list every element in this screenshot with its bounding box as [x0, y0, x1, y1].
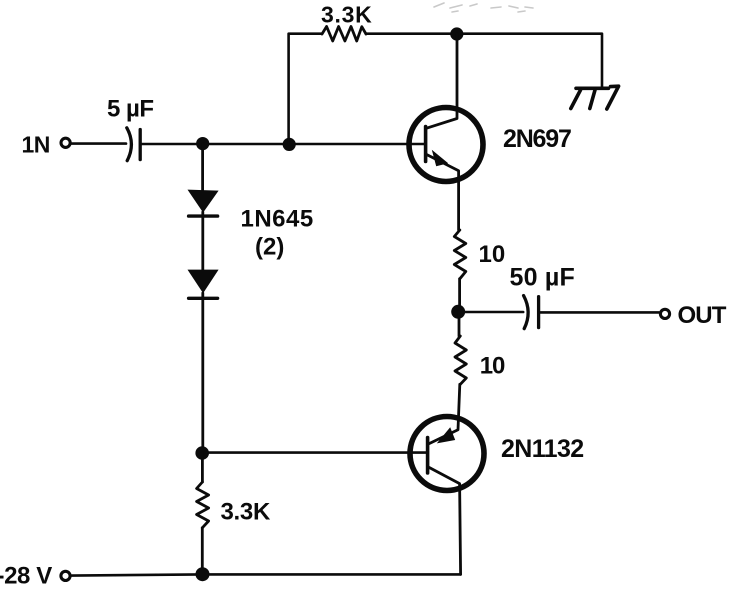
capacitor C2 straight plate [537, 297, 540, 328]
wire D2 to node E [201, 293, 204, 453]
wire node D to C2 [458, 311, 523, 314]
wire D1 to D2 [201, 212, 204, 270]
svg-text:2N1132: 2N1132 [501, 435, 584, 463]
wire node B up to top rail [289, 34, 322, 144]
svg-text:1N: 1N [22, 131, 50, 157]
svg-text:-28 V: -28 V [0, 563, 52, 590]
svg-text:50 µF: 50 µF [510, 263, 575, 291]
transistor Q2 emitter arrow [437, 427, 455, 443]
node OUT terminal [660, 309, 669, 318]
wire R2 to node D [458, 279, 461, 312]
transistor Q2 collector [428, 467, 461, 575]
capacitor C1 curved plate [127, 128, 132, 161]
transistor Q1 2N697 circle [409, 108, 483, 182]
wire diode chain vertical [201, 144, 204, 190]
transistor Q1 emitter arrow [432, 150, 448, 166]
wire R4 to bottom rail [201, 528, 204, 575]
wire collector vertical Q1 [426, 34, 457, 128]
wire node E down to R4 [201, 453, 204, 482]
resistor R3 10 [455, 336, 466, 384]
wire R1 to ground corner [366, 34, 602, 88]
transistor Q2 2N1132 circle [410, 417, 484, 491]
diode D2 bar [189, 297, 218, 300]
capacitor C2 curved plate [524, 296, 529, 329]
node -28V terminal [61, 571, 70, 580]
transistor Q1 base bar [424, 127, 428, 162]
node E junction dot [195, 446, 209, 460]
transistor Q2 base bar [426, 438, 430, 474]
diode D2 triangle [188, 270, 219, 294]
svg-text:2N697: 2N697 [503, 125, 571, 153]
svg-text:10: 10 [480, 353, 505, 380]
diode D1 bar [189, 214, 218, 217]
ground [571, 86, 619, 109]
svg-text:3.3K: 3.3K [221, 499, 271, 526]
wire C2 to OUT [540, 311, 658, 314]
svg-text:10: 10 [479, 241, 506, 268]
node D output junction dot [451, 305, 465, 319]
resistor R4 3.3K [197, 482, 209, 528]
resistor R1 3.3K [322, 27, 366, 42]
node C collector junction dot [450, 27, 463, 40]
wire (faint pencil smudge, scan artifact) [434, 3, 533, 12]
svg-text:OUT: OUT [678, 302, 727, 329]
node F bottom junction dot [196, 567, 210, 581]
node IN terminal [61, 138, 70, 147]
node A junction dot [196, 137, 209, 150]
node B junction dot [283, 138, 296, 151]
transistor Q1 emitter [426, 154, 459, 230]
wire node D down to R3 [458, 312, 461, 336]
svg-text:3.3K: 3.3K [321, 2, 372, 28]
resistor R2 10 [454, 230, 466, 279]
wire C1 to transistor base rail [142, 143, 426, 146]
svg-text:5 µF: 5 µF [107, 95, 154, 122]
capacitor C1 straight plate [139, 130, 142, 160]
svg-text:(2): (2) [255, 233, 284, 260]
diode D1 triangle [188, 190, 219, 213]
wire node E to Q2 base [202, 451, 427, 454]
svg-text:1N645: 1N645 [241, 206, 314, 233]
wire R3 to Q2 emitter [428, 384, 460, 444]
wire bottom rail [72, 574, 461, 575]
wire input to C1 [72, 142, 126, 145]
